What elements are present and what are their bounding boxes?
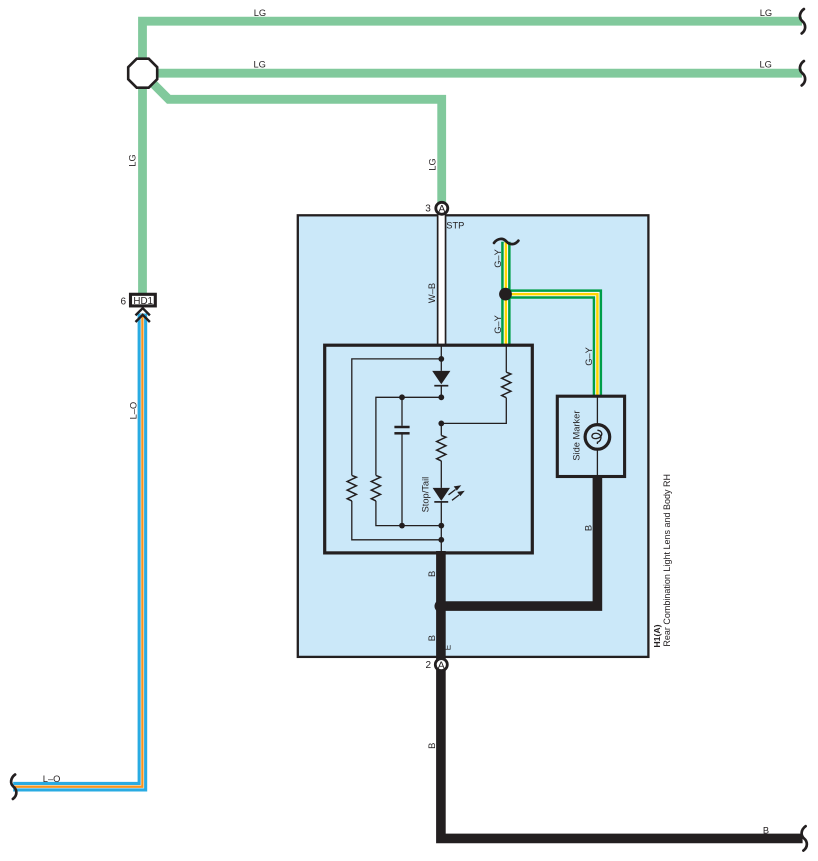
- svg-text:B: B: [763, 825, 769, 835]
- resistor R2 (second from left): [371, 475, 380, 501]
- svg-text:3: 3: [425, 203, 431, 214]
- svg-text:B: B: [427, 571, 437, 577]
- node dot mid: [438, 421, 444, 427]
- svg-text:G–Y: G–Y: [493, 315, 503, 334]
- svg-text:LG: LG: [254, 8, 266, 18]
- svg-text:A: A: [438, 660, 445, 671]
- wire G-Y vertical (green outer): [501, 242, 510, 345]
- svg-text:A: A: [438, 204, 445, 215]
- wire above R3 to box top (G-Y entry): [505, 346, 507, 372]
- svg-text:E: E: [442, 644, 452, 650]
- wire LG horizontal top + left vertical drop to HD1: [143, 21, 803, 294]
- LED arrow 1: [449, 490, 456, 495]
- wire LG second horizontal: [143, 69, 802, 78]
- node dot bottom rail: [438, 537, 444, 543]
- wire horizontal to capacitor branch: [376, 397, 441, 475]
- junction bulge on B wire: [435, 600, 448, 613]
- wire W-B black outline: [437, 215, 447, 346]
- resistor R3 (right): [502, 372, 511, 398]
- resistor R4 (center, above LED): [440, 423, 442, 435]
- junction octagon splice: [128, 59, 157, 88]
- diode D1: [440, 359, 442, 371]
- svg-text:2: 2: [426, 660, 432, 671]
- wire G-Y branch to side marker (green outer): [506, 294, 598, 396]
- capacitor C1: [401, 397, 403, 426]
- component box H1(A) Rear Combination Light Lens and Body RH: [298, 215, 649, 657]
- svg-text:W–B: W–B: [427, 283, 437, 303]
- wire below R1 to bottom rail: [352, 501, 442, 540]
- wire top horizontal to left branch: [352, 359, 442, 476]
- wire B thick from side marker to junction: [441, 475, 598, 606]
- node dot top: [438, 356, 444, 362]
- svg-text:HD1: HD1: [133, 296, 153, 307]
- wire LG diagonal branch to vertical at x=441.7 down to connector A pin 3: [147, 78, 442, 204]
- svg-text:6: 6: [121, 296, 127, 307]
- wire W-B white core: [439, 215, 445, 346]
- connector A pin 2 circle: [435, 659, 447, 671]
- break symbol L-O left: [11, 775, 16, 799]
- svg-text:LG: LG: [127, 154, 137, 166]
- wire L-O orange stripe: [13, 314, 142, 787]
- svg-text:Side Marker: Side Marker: [571, 411, 581, 461]
- svg-text:LG: LG: [760, 8, 772, 18]
- svg-text:G–Y: G–Y: [584, 347, 594, 366]
- node dot below diode: [438, 394, 444, 400]
- wire B thick from module bottom through connector A pin 2 to ground run: [441, 551, 803, 838]
- svg-text:B: B: [427, 635, 437, 641]
- svg-text:LG: LG: [254, 60, 266, 70]
- connector A pin 3 circle: [436, 202, 448, 214]
- svg-text:Stop/Tail: Stop/Tail: [420, 477, 430, 513]
- LED arrow 2: [452, 495, 459, 500]
- bulb filament: [592, 430, 602, 444]
- svg-text:B: B: [583, 525, 593, 531]
- node dot capacitor top: [399, 394, 405, 400]
- wire G-Y yellow stripe vertical: [505, 242, 508, 345]
- shield chevron 1: [136, 308, 150, 315]
- svg-text:H1(A): H1(A): [652, 624, 662, 647]
- resistor R1 (left): [347, 475, 356, 501]
- wire G-Y white underlay vertical: [504, 242, 508, 345]
- shield chevron 2: [136, 315, 150, 322]
- connector HD1 box: [131, 294, 156, 306]
- node dot lower rail left: [399, 523, 405, 529]
- wire G-Y yellow stripe branch: [506, 294, 598, 396]
- break symbol B bottom right: [802, 826, 807, 850]
- side marker lamp box: [557, 396, 624, 476]
- wire L-O white underlay: [13, 314, 142, 787]
- bulb lead top: [596, 396, 598, 429]
- break symbol G-Y top (horizontal): [494, 239, 518, 244]
- svg-text:G–Y: G–Y: [493, 249, 503, 268]
- bulb lead bottom: [596, 444, 598, 477]
- wire to right resistor branch: [441, 398, 506, 424]
- LED Stop/Tail: [433, 488, 450, 501]
- junction dot on G-Y: [499, 288, 512, 301]
- bulb circle: [585, 425, 610, 450]
- wire L-O blue outer: [13, 314, 142, 787]
- wire G-Y white underlay branch: [506, 294, 598, 396]
- svg-text:B: B: [427, 743, 437, 749]
- svg-text:L–O: L–O: [129, 402, 139, 420]
- svg-text:STP: STP: [446, 221, 464, 231]
- break symbol wire LG 2 right: [800, 61, 805, 85]
- svg-text:LG: LG: [760, 60, 772, 70]
- break symbol wire LG top right: [800, 9, 805, 33]
- inner circuit box (stop/tail lamp module): [325, 345, 533, 553]
- wire below R2 to lower rail: [376, 501, 441, 526]
- svg-text:Rear Combination Light Lens an: Rear Combination Light Lens and Body RH: [662, 474, 672, 647]
- svg-text:L–O: L–O: [43, 774, 61, 784]
- wire stub from W-B into node A1: [440, 346, 442, 359]
- svg-text:LG: LG: [428, 158, 438, 170]
- node dot lower rail right: [438, 523, 444, 529]
